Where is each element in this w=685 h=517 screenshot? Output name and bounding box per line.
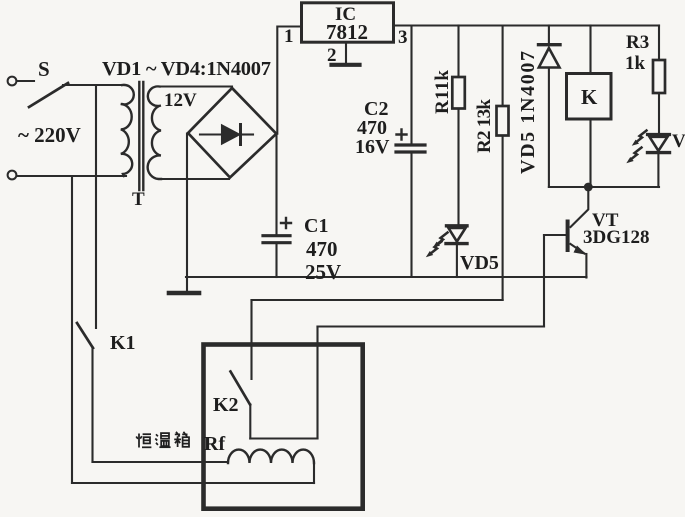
- wire 220V line down left side: [71, 176, 73, 483]
- svg-text:25V: 25V: [305, 260, 341, 284]
- transformer core: [139, 82, 143, 190]
- switch K1 arm: [77, 323, 93, 348]
- svg-text:S: S: [38, 57, 50, 81]
- svg-text:12V: 12V: [164, 90, 197, 111]
- svg-text:16V: 16V: [355, 136, 390, 158]
- transformer T secondary winding: [148, 86, 161, 179]
- capacitor C2: [396, 143, 425, 146]
- wire to base bar: [544, 234, 566, 236]
- wire R2 down crossing ground rail: [502, 136, 504, 301]
- wire VD5 down to junction: [548, 68, 550, 187]
- LED VD6 emission arrow 1: [636, 131, 647, 143]
- capacitor C1: [263, 234, 290, 237]
- ground symbol pin2: [332, 63, 360, 67]
- svg-text:R3: R3: [626, 32, 649, 53]
- wire IC pin 2 to ground: [345, 43, 347, 64]
- wire rail end down to R3: [658, 26, 660, 61]
- LED VD5 top bar: [447, 224, 468, 227]
- bridge inner diode lead right: [241, 133, 254, 135]
- wire K1 bottom vertical: [91, 347, 93, 462]
- terminal upper: [8, 77, 17, 86]
- wire rail to R2: [502, 26, 504, 107]
- transistor VT emitter: [571, 244, 585, 254]
- svg-text:Rf: Rf: [204, 433, 225, 455]
- wire R3 to LED: [658, 93, 660, 134]
- wire down to K2 contact: [250, 300, 252, 379]
- wire R2 to K2 horizontal: [252, 299, 503, 301]
- bridge rectifier VD1-VD4 diamond: [188, 88, 276, 178]
- svg-text:470: 470: [306, 237, 338, 261]
- LED VD6 top bar: [648, 133, 670, 136]
- diode VD5 triangle: [539, 48, 560, 68]
- svg-text:1: 1: [284, 26, 294, 47]
- transistor VT base bar: [566, 222, 570, 251]
- node junction dot: [584, 183, 593, 192]
- wire emitter to ground rail: [585, 254, 587, 278]
- terminal lower: [8, 171, 17, 180]
- thermostat box: [204, 345, 363, 509]
- wire R1 to LED VD5: [457, 109, 459, 225]
- wire K1 feed vertical: [95, 85, 97, 328]
- diode VD5 cathode bar: [539, 43, 561, 46]
- wire up out of box: [316, 327, 318, 439]
- wire rail to VD5 diode: [548, 26, 550, 45]
- resistor R1 body: [452, 77, 465, 109]
- svg-text:V: V: [672, 131, 685, 152]
- svg-text:7812: 7812: [326, 20, 368, 44]
- svg-text:1k: 1k: [625, 53, 646, 74]
- wire secondary bottom to bridge: [160, 178, 229, 180]
- wire switch to transformer primary: [63, 84, 125, 86]
- resistor R3 body: [653, 60, 665, 93]
- svg-text:K2: K2: [213, 394, 239, 416]
- wire terminal to switch: [17, 80, 34, 82]
- wire LED VD5 to ground rail: [456, 245, 458, 277]
- wire bridge minus to ground: [186, 134, 188, 292]
- wire K2 bottom: [249, 405, 251, 439]
- wire C1 to ground rail: [275, 244, 277, 277]
- label hengwenxiang char wen: [155, 433, 170, 447]
- C2 plus sign: [397, 130, 407, 140]
- switch K2 arm: [231, 372, 251, 405]
- svg-text:3DG128: 3DG128: [583, 227, 650, 248]
- wire bridge plus down to C1: [275, 134, 277, 235]
- wire bridge plus up to IC pin 1: [277, 27, 301, 134]
- bridge inner diode cathode bar: [239, 125, 242, 145]
- transformer T primary winding: [121, 85, 134, 176]
- wire bottom horizontal to Rf right lead: [72, 482, 314, 484]
- svg-text:K1: K1: [110, 332, 136, 354]
- wire to transistor base horizontal: [318, 325, 545, 327]
- svg-text:R2 13k: R2 13k: [474, 99, 495, 153]
- IC U1 7812 box: [302, 3, 394, 42]
- wire base vertical crossing ground rail: [543, 235, 545, 327]
- ground symbol main: [169, 291, 199, 296]
- label hengwenxiang char heng: [136, 434, 151, 448]
- svg-text:C1: C1: [304, 215, 328, 237]
- bridge inner diode lead left: [200, 133, 221, 135]
- LED VD5 cathode bar: [446, 242, 467, 245]
- wire C2 to ground rail: [410, 154, 412, 278]
- transistor VT emitter arrow: [574, 246, 587, 255]
- wire K1 to Rf coil left lead: [93, 461, 229, 463]
- ground rail: [186, 276, 587, 278]
- svg-text:3: 3: [398, 27, 408, 48]
- svg-text:~ 220V: ~ 220V: [18, 123, 81, 147]
- svg-text:VD1 ~ VD4:1N4007: VD1 ~ VD4:1N4007: [102, 58, 271, 80]
- wire secondary top to bridge: [160, 87, 232, 89]
- wire inside box bottom: [250, 437, 317, 439]
- switch S arm: [29, 83, 68, 107]
- wire rail to relay K: [589, 26, 591, 74]
- svg-text:T: T: [132, 189, 145, 210]
- LED VD6 cathode bar: [648, 151, 670, 154]
- wire Rf right lead vertical: [313, 462, 315, 483]
- wire rail to C2: [410, 26, 412, 144]
- wire lower terminal to transformer primary: [17, 175, 126, 177]
- resistor R2 body: [497, 106, 509, 136]
- LED VD5 emission arrow 2: [431, 242, 442, 254]
- svg-text:R11k: R11k: [432, 70, 453, 114]
- wire junction horizontal: [549, 186, 659, 188]
- wire IC pin 3 output rail: [394, 24, 660, 26]
- svg-text:VD5 1N4007: VD5 1N4007: [517, 51, 539, 174]
- relay K box: [567, 74, 612, 120]
- wire K to junction: [589, 119, 591, 187]
- label hengwenxiang char xiang: [174, 432, 189, 447]
- heater coil Rf: [228, 450, 314, 463]
- LED VD5 emission arrow 1: [437, 233, 448, 245]
- LED VD5 triangle: [449, 228, 466, 242]
- svg-text:VD5: VD5: [460, 252, 499, 274]
- LED VD6 emission arrow 2: [631, 148, 642, 160]
- svg-text:2: 2: [327, 45, 337, 66]
- C1 plus sign: [281, 218, 291, 228]
- svg-text:K: K: [581, 85, 598, 109]
- wire rail to R1: [457, 26, 459, 78]
- bridge inner diode triangle: [222, 126, 239, 144]
- LED VD6 triangle: [650, 137, 668, 151]
- wire LED VD6 to junction: [657, 154, 659, 187]
- transistor VT collector: [571, 187, 589, 227]
